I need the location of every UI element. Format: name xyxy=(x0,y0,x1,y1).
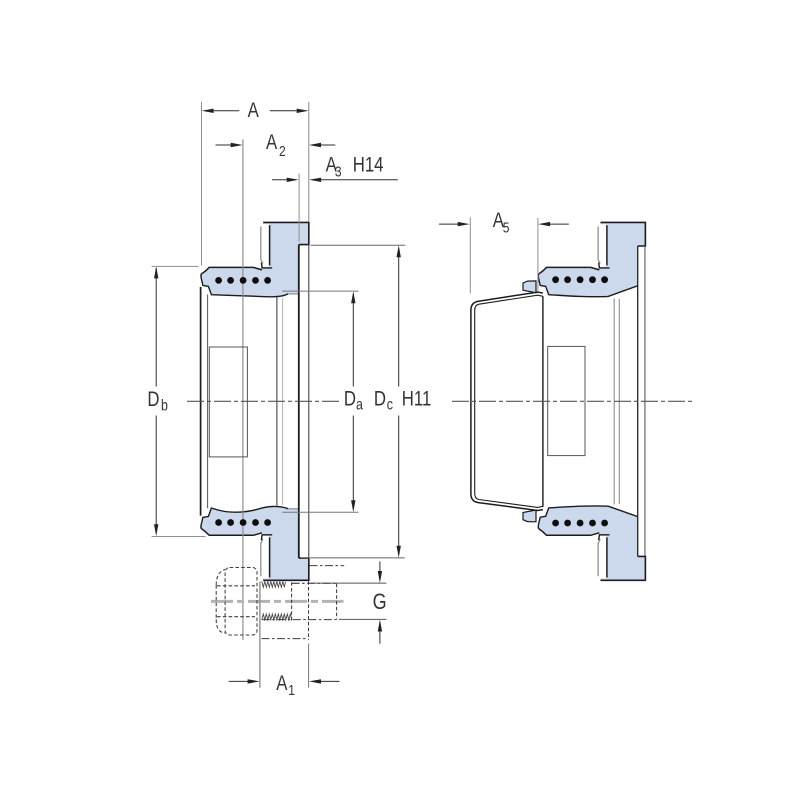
dimension Dc stem xyxy=(398,249,400,555)
svg-text:2: 2 xyxy=(279,143,286,160)
dimension Db stem xyxy=(155,268,157,533)
right bore rectangle xyxy=(548,346,585,455)
hole upper line xyxy=(310,565,345,567)
bottom boss outline xyxy=(263,558,309,580)
A5 arrows xyxy=(458,222,470,226)
svg-text:H14: H14 xyxy=(353,154,384,177)
svg-text:b: b xyxy=(161,396,168,414)
svg-text:a: a xyxy=(356,395,363,413)
housing front face thick line xyxy=(200,287,202,516)
G arrows xyxy=(378,571,382,583)
svg-text:A: A xyxy=(266,131,277,154)
top gray seat line xyxy=(288,293,299,295)
bottom flange section dots xyxy=(215,519,271,526)
left view top flange+boss blue section xyxy=(201,222,309,296)
dimension A2 lines xyxy=(216,144,336,146)
dimension A3 lines xyxy=(272,179,398,181)
svg-text:1: 1 xyxy=(288,682,295,699)
cover lip top xyxy=(523,281,536,293)
thread end line xyxy=(291,582,293,621)
Dc arrows xyxy=(397,245,401,257)
svg-text:5: 5 xyxy=(503,219,510,236)
svg-text:3: 3 xyxy=(335,163,342,180)
hole lower line xyxy=(262,638,309,640)
right bottom slot xyxy=(599,536,607,579)
hex head left facet xyxy=(216,570,225,634)
bottom slot (white notch) xyxy=(262,536,270,579)
dimension Da extensions xyxy=(282,291,358,512)
svg-text:A: A xyxy=(276,672,287,695)
outer ring inner edge line xyxy=(276,297,278,506)
bottom flange outline strokes xyxy=(201,528,262,535)
dimension G extensions xyxy=(311,583,387,619)
outer ring light line xyxy=(282,298,284,505)
A arrows xyxy=(202,109,214,113)
top flange section dots xyxy=(215,277,271,284)
dimension Db extensions xyxy=(152,266,206,536)
dimension A1 lines xyxy=(229,680,340,682)
right bottom flange outline xyxy=(538,528,599,535)
A2 arrows xyxy=(231,143,243,147)
dimension A5 lines xyxy=(439,223,569,225)
right view horizontal centerline xyxy=(452,400,693,402)
svg-text:G: G xyxy=(373,590,387,614)
bolt end face xyxy=(336,584,338,620)
right bottom boss outline xyxy=(601,556,646,580)
svg-text:D: D xyxy=(147,388,159,411)
right top slot xyxy=(599,224,607,267)
housing back wall thick line xyxy=(298,245,300,558)
bore rectangle xyxy=(209,347,247,457)
end cover inner outline xyxy=(475,295,543,507)
dimension A1 extensions xyxy=(259,582,261,688)
svg-text:D: D xyxy=(374,388,386,411)
hex head outline xyxy=(225,568,257,636)
bolt axis centerline xyxy=(211,600,344,603)
arrowheads xyxy=(154,109,550,684)
right housing silhouette gray pair xyxy=(613,299,615,505)
thread top zigzag xyxy=(262,581,286,587)
dimension G stems xyxy=(379,562,381,644)
A2 extension vertical line xyxy=(242,139,244,640)
dimension A5 extensions xyxy=(469,217,471,293)
A3 arrows xyxy=(287,178,299,182)
hex head facet lines xyxy=(217,586,255,617)
bottom gray seat line xyxy=(288,508,299,510)
dimension Dc extensions xyxy=(301,245,405,558)
dimension Da stem xyxy=(352,295,354,510)
right channel left line xyxy=(637,246,639,556)
right bottom dots xyxy=(552,520,608,527)
A1 arrows xyxy=(248,679,260,683)
right gray rim line xyxy=(644,247,646,556)
dimension A lines xyxy=(213,110,298,112)
thread bottom zigzag xyxy=(262,614,292,620)
Db arrows xyxy=(154,266,158,278)
top boss outline xyxy=(263,222,309,244)
boss face hidden line xyxy=(308,581,310,640)
svg-text:c: c xyxy=(387,395,393,413)
right view bottom flange+boss blue xyxy=(538,506,645,580)
right view top flange+boss blue xyxy=(538,222,645,296)
left view horizontal centerline xyxy=(187,400,340,402)
right top flange outline xyxy=(538,267,599,274)
shank bottom edge xyxy=(262,619,337,621)
svg-text:A: A xyxy=(248,99,259,122)
right top dots xyxy=(552,276,608,283)
dimension A extension lines xyxy=(201,102,203,266)
Da arrows xyxy=(351,291,355,303)
left view bottom flange+boss blue section xyxy=(201,506,309,580)
cover lip bottom xyxy=(523,510,536,522)
end cover outer outline xyxy=(471,292,543,510)
svg-text:H11: H11 xyxy=(402,388,432,411)
top slot (white notch) xyxy=(262,224,270,267)
top flange outline strokes xyxy=(201,267,262,274)
housing front inner line xyxy=(207,295,209,509)
spigot rim line xyxy=(308,245,310,558)
shank top edge xyxy=(292,582,337,584)
right top boss outline xyxy=(601,222,646,246)
svg-text:D: D xyxy=(344,388,356,411)
end cover base rim xyxy=(542,296,544,507)
dimension A3 extension xyxy=(298,174,300,242)
